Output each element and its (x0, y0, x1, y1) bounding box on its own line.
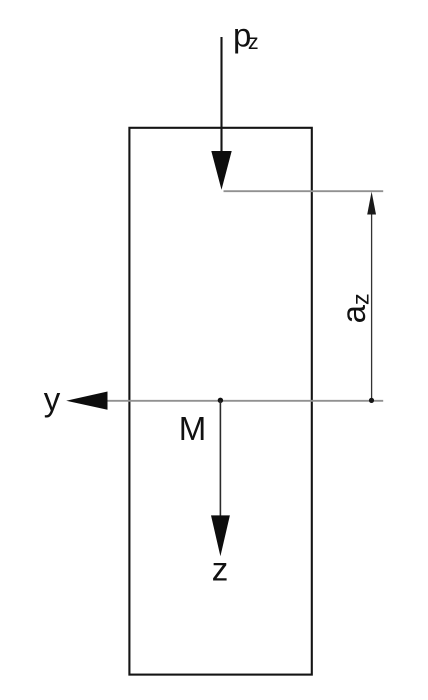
dimension line a_z (371, 213, 373, 400)
svg-text:z: z (248, 30, 259, 54)
z axis line (219, 400, 221, 517)
force p_z arrowhead (211, 151, 231, 190)
svg-text:z: z (347, 293, 373, 305)
label p_z (233, 16, 259, 54)
force p_z line (220, 37, 222, 154)
dimension arrowhead (up) (367, 192, 376, 215)
svg-text:y: y (44, 380, 61, 417)
y axis line (107, 400, 383, 402)
extension line from arrow tip (224, 190, 384, 192)
svg-text:M: M (179, 410, 207, 447)
node M dot (218, 398, 223, 403)
z axis arrowhead (down) (211, 515, 230, 556)
y axis arrowhead (left) (66, 392, 107, 410)
cross-section rectangle (129, 128, 311, 675)
label a_z (rotated) (335, 293, 373, 323)
svg-text:z: z (212, 550, 229, 587)
svg-text:a: a (335, 304, 372, 323)
dimension end dot (369, 398, 374, 403)
